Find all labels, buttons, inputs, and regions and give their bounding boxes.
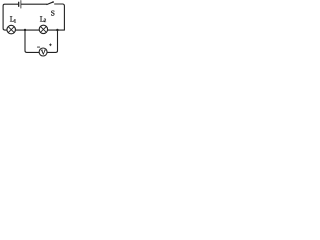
node B junction dot — [56, 29, 58, 31]
wire voltmeter branch right: to node B up — [47, 31, 57, 53]
wire middle row: L1 to L2 — [15, 29, 39, 31]
lamp L2 circle — [39, 25, 47, 33]
svg-text:S: S — [51, 8, 55, 17]
battery B long positive plate — [20, 1, 22, 9]
node A junction dot — [24, 29, 26, 31]
wire middle row: L2 to right side — [48, 29, 65, 31]
wire switch to top-right corner, down right side — [55, 4, 65, 30]
lamp L2 cross — [40, 26, 46, 32]
switch S lever (open) — [47, 2, 53, 5]
voltmeter minus polarity mark — [37, 46, 39, 48]
battery B short negative plate — [18, 2, 20, 6]
lamp L1 circle — [7, 25, 16, 33]
voltmeter V circle — [39, 48, 47, 56]
wire voltmeter branch left: node A down and right — [25, 31, 39, 53]
lamp L1 cross — [8, 27, 14, 33]
switch S right contact tip — [52, 1, 54, 3]
svg-text:1: 1 — [14, 19, 17, 25]
wire battery to switch — [21, 3, 46, 5]
svg-text:V: V — [41, 48, 46, 56]
svg-text:2: 2 — [44, 18, 47, 24]
voltmeter plus polarity mark — [49, 44, 51, 46]
wire top-left from battery to left corner, down left side — [3, 4, 18, 30]
